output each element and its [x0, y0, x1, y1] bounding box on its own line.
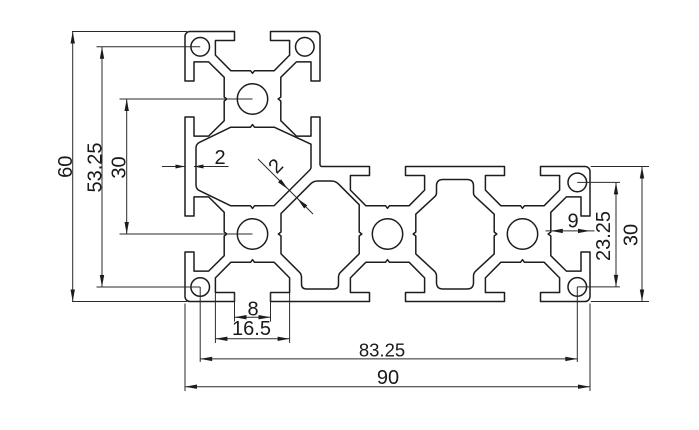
arrowheads 83.25	[200, 357, 212, 361]
arrowheads 30 right	[640, 167, 644, 179]
svg-text:83.25: 83.25	[359, 340, 405, 361]
dimension line 53.25	[101, 47, 103, 287]
arrowheads 53.25	[100, 47, 104, 59]
cavity octagon between bottom-middle and bottom-right cells	[413, 180, 497, 290]
arrowheads wall 2	[176, 165, 186, 169]
center bore hole of bottom-middle cell	[372, 219, 402, 249]
diagonal web 2 leader	[258, 159, 313, 214]
dimension line 23.25	[615, 182, 617, 287]
arrowheads diagonal 2	[278, 179, 288, 189]
arrowheads 30 left	[125, 99, 129, 111]
top corner of vertical leg right side screw hole	[296, 38, 315, 57]
bottom-right corner screw hole	[568, 278, 587, 297]
extension lines right side	[577, 181, 620, 183]
bottom-left corner screw hole	[191, 278, 210, 297]
svg-text:30: 30	[620, 224, 642, 246]
wall thickness 2 leader	[162, 166, 185, 168]
svg-text:30: 30	[109, 156, 131, 178]
dimension line 60	[72, 32, 74, 302]
top-left corner screw hole	[191, 38, 210, 57]
svg-text:23.25: 23.25	[593, 211, 615, 261]
cavity octagon between bottom-left and bottom-middle cells	[278, 181, 361, 289]
dimension line 30 right	[641, 167, 643, 302]
profile outer contour with T-slots	[185, 32, 590, 302]
dimension line 83.25	[200, 358, 577, 360]
extension lines bottom	[234, 293, 236, 322]
svg-text:90: 90	[377, 367, 399, 389]
arrowheads 8 (outside)	[235, 315, 247, 319]
dimension line 8	[235, 316, 271, 318]
arrowheads 60	[71, 32, 75, 44]
dimension line 16.5	[215, 338, 289, 340]
dimension line 30 left	[126, 99, 128, 234]
arrowheads 90	[185, 385, 197, 389]
arrowheads 16.5	[215, 337, 227, 341]
arrowheads 9	[551, 229, 563, 233]
svg-text:53.25: 53.25	[84, 142, 106, 192]
center bore hole of top-left cell	[237, 84, 267, 114]
dimension line 9	[546, 230, 595, 232]
top-right corner screw hole	[568, 173, 587, 192]
center bore hole of bottom-left cell	[237, 219, 267, 249]
svg-text:2: 2	[214, 147, 225, 169]
svg-text:8: 8	[247, 299, 258, 321]
dimension line 90	[185, 386, 590, 388]
svg-text:9: 9	[568, 210, 579, 232]
svg-text:16.5: 16.5	[232, 318, 271, 340]
arrowheads 23.25	[614, 182, 618, 194]
svg-text:60: 60	[55, 156, 77, 178]
center bore hole of bottom-right cell	[507, 219, 537, 249]
cavity octagon between top-left and bottom-left cells	[196, 125, 311, 209]
extension lines left side	[72, 31, 187, 33]
